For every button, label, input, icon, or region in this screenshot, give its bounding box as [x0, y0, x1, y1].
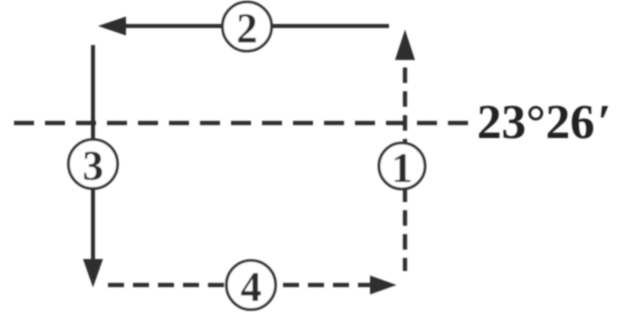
svg-text:1: 1	[392, 146, 413, 192]
svg-text:2: 2	[237, 7, 258, 53]
wire: right arrow shaft (upward, dashed)	[403, 68, 407, 272]
node 4: circled label on bottom dashed arrow	[227, 261, 276, 310]
arrowhead of top arrow (points left)	[98, 17, 126, 36]
arrowhead of left arrow (points down)	[83, 259, 103, 288]
arrowhead of bottom arrow (points right)	[370, 276, 397, 295]
node 2: circled label on top arrow	[223, 2, 272, 51]
svg-text:4: 4	[241, 265, 262, 311]
node 1: circled label on right dashed arrow	[379, 143, 425, 189]
wire: top arrow shaft (leftward, solid)	[122, 24, 389, 28]
node 3: circled label on left arrow	[69, 140, 118, 189]
wire: tropic of cancer dashed latitude line	[14, 121, 468, 125]
svg-text:23°26′: 23°26′	[477, 94, 611, 149]
arrowhead of right arrow (points up)	[395, 30, 415, 61]
wire: bottom arrow shaft (rightward, dashed)	[108, 283, 372, 287]
wire: left arrow shaft (downward, solid)	[91, 45, 95, 261]
svg-text:3: 3	[83, 144, 104, 190]
